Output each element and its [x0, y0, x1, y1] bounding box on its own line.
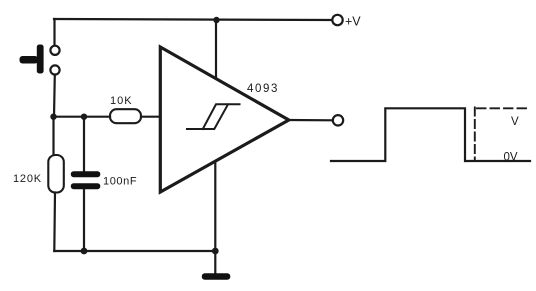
- wire supply to gate (lower): [214, 162, 216, 251]
- waveform output pulse solid: [331, 108, 465, 161]
- schmitt trigger hysteresis symbol: [187, 104, 240, 129]
- wire R2 to bottom rail: [53, 193, 56, 252]
- node A junction dot right: [81, 114, 87, 120]
- svg-text:4093: 4093: [247, 83, 279, 95]
- wire node A to R2: [52, 117, 54, 155]
- terminal +V: [332, 15, 342, 25]
- node A junction dot left: [50, 114, 56, 120]
- node junction top rail / supply: [213, 17, 219, 23]
- resistor R2 120K body: [48, 155, 64, 193]
- svg-text:120K: 120K: [13, 173, 42, 185]
- node A wire: [54, 116, 110, 118]
- svg-text:V: V: [511, 116, 519, 128]
- wire to ground: [214, 251, 216, 274]
- wire supply to gate (upper): [215, 20, 217, 77]
- wire C1 to bottom rail: [83, 190, 85, 252]
- wire R1 to gate input: [141, 116, 161, 118]
- pushbutton S1 contact upper: [50, 46, 59, 55]
- wire bottom rail: [54, 250, 215, 252]
- wire switch to node A: [53, 75, 56, 118]
- junction dot bottom rail / ground: [212, 248, 219, 255]
- waveform dashed falling edge: [474, 108, 476, 161]
- op-amp U1 gate 4093 triangle: [160, 47, 288, 192]
- svg-text:0V: 0V: [504, 152, 518, 164]
- junction dot bottom rail / capacitor: [81, 248, 88, 255]
- wire switch to top rail: [53, 19, 55, 46]
- capacitor C1 plate upper: [71, 171, 101, 177]
- waveform dashed high level: [477, 107, 531, 109]
- resistor R1 10K body: [110, 109, 141, 123]
- svg-text:+V: +V: [345, 15, 361, 29]
- wire gate output: [289, 119, 333, 122]
- svg-text:10K: 10K: [110, 95, 133, 107]
- waveform 0V baseline: [466, 160, 530, 162]
- wire top rail: [54, 19, 332, 20]
- ground symbol: [202, 273, 231, 280]
- capacitor C1 plate lower: [71, 183, 101, 189]
- wire node A to C1: [83, 117, 85, 171]
- svg-text:100nF: 100nF: [103, 176, 137, 188]
- pushbutton S1 contact lower: [50, 65, 59, 74]
- pushbutton S1 actuator: [20, 45, 44, 74]
- terminal output: [333, 115, 343, 125]
